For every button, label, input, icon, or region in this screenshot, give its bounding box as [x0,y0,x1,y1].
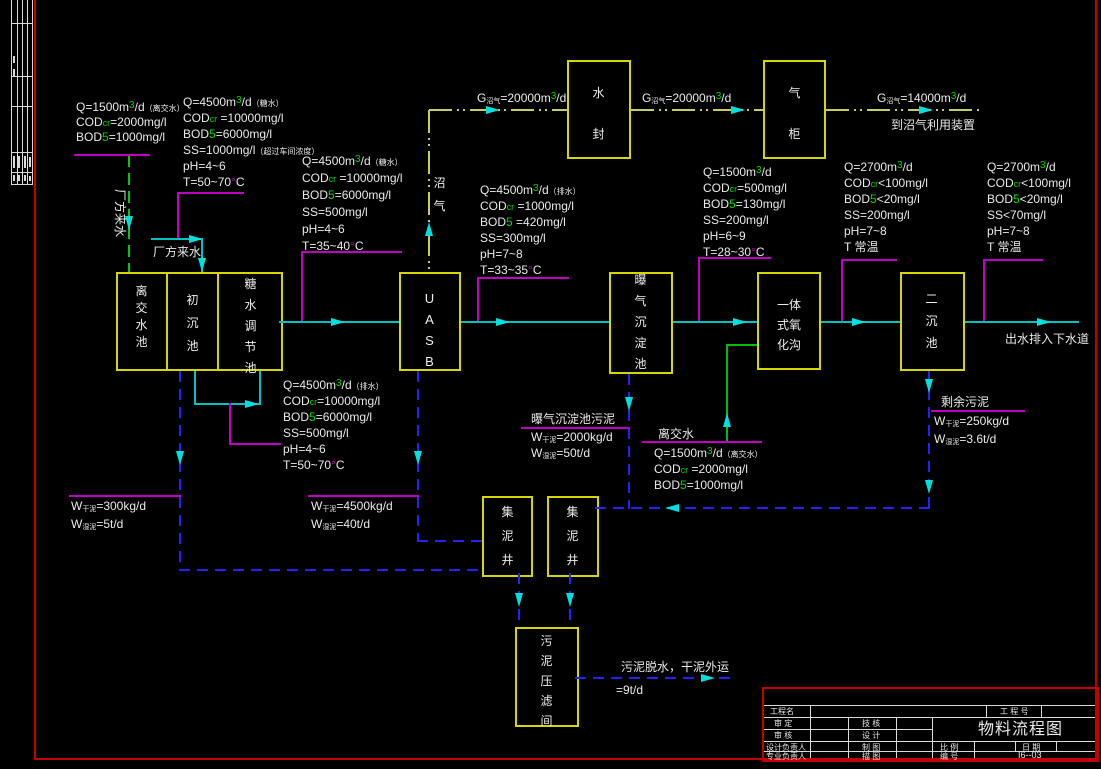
note W4500 sludge [311,497,393,533]
frame bottom red border [34,758,1097,760]
tank 一体式氧化沟 [757,272,821,370]
note 离交水 return data [658,426,694,442]
reactor UASB [399,272,461,371]
building 污泥压滤间 [515,627,579,727]
leader block2 [177,192,244,194]
label 厂方来水 vertical [112,189,128,239]
note block6 氧化沟 outlet data [844,159,928,255]
label G=20000 no.1 [477,90,566,106]
wire biogas 气柜 to utilization [826,109,980,111]
wire main flow 曝气沉淀池 to 氧化沟 [673,321,757,323]
vessel 气柜 [763,60,826,159]
divider 1 [166,272,168,371]
note block3 调节池 outlet data [302,153,403,255]
sludge 曝气沉淀池 down dashed [628,374,630,509]
label 一体式氧化沟 [776,295,802,355]
wire inlet2 cyan horizontal [151,238,203,240]
leader block8 [229,403,231,445]
sludge return run to 集泥井2 [595,507,930,509]
well 集泥井 no.1 [482,496,533,577]
title block red outline [762,687,1099,762]
sludge 初沉池 down dashed [179,371,181,571]
title block labels [770,707,794,717]
drawing number I6--03 [1018,752,1042,759]
label 水封 [592,73,605,155]
leader block3 [301,251,402,253]
leader block6 [841,259,897,261]
wire main flow 氧化沟 to 二沉池 [821,321,900,323]
label 集泥井 2 [566,500,579,572]
note 污泥脱水，干泥外运 [621,659,729,675]
label 初沉池 [186,289,199,358]
note 曝气沉淀池污泥 [531,411,615,427]
label 污泥压滤间 [540,631,553,731]
label 二沉池 [925,288,938,354]
leader W4500 [308,495,419,497]
label 到沼气利用装置 [891,117,975,133]
vessel 水封 [567,60,631,159]
note =9t/d [616,682,643,698]
sludge UASB down dashed [417,371,419,542]
wire inlet2 magenta drop [177,192,179,239]
note 剩余污泥 [941,394,989,410]
wire outfall 二沉池 to sewer [965,321,1079,323]
frame right red border [1095,0,1097,760]
leader block1 [74,154,150,156]
leader 剩余污泥 [931,410,1025,412]
tank 曝气沉淀池 [609,272,673,374]
note 出水排入下水道 [1005,331,1089,347]
label G=20000 no.2 [642,90,731,106]
signature strip tiny text marks [13,56,15,63]
note block5 曝气沉淀池 outlet data [703,164,787,260]
sludge 集泥井1 to 压滤间 [518,573,520,627]
sludge bottom run to 集泥井1 [179,569,482,571]
leader block7 [983,259,1043,261]
leader W300 [69,495,181,497]
wire 离交水 return green [726,344,728,442]
leader 曝气沉淀池污泥 [521,427,630,429]
wire inlet2 cyan drop into 初沉池 [201,238,203,272]
signature strip table (rotated, left margin) [11,0,12,185]
label G=14000 [877,90,966,106]
leader block5 [698,257,771,259]
wire biogas 水封 to 气柜 [631,109,763,111]
wire inlet 离交水 green dashed [128,155,130,272]
wire main flow UASB to 曝气沉淀池 [461,321,609,323]
sludge UASB run to 集泥井1 [417,540,482,542]
wire biogas riser from UASB [428,110,430,272]
sludge cake out of 压滤间 [575,677,735,679]
label 曝气沉淀池 [634,270,647,375]
label 气柜 [788,73,801,155]
note block1 离交水 inlet data [76,100,185,145]
note block2 厂方来水 data [183,94,319,190]
label 集泥井 1 [501,500,514,572]
label 厂方来水 horizontal [153,244,201,260]
note block4 UASB outlet data [480,182,581,278]
tank combined box 离交水池/初沉池/糖水调节池 [116,272,283,371]
label 糖水调节池 [244,274,257,379]
label 离交水池 [135,283,148,351]
note block7 final effluent data [987,159,1071,255]
frame left red border [34,0,36,760]
wire biogas to 水封 [429,109,567,111]
label 沼气 vertical [433,172,446,218]
drawing title 物料流程图 [978,721,1063,739]
leader block4 UASB outlet [477,277,569,279]
wire 初沉池 to 调节池 cyan u-shape [194,371,196,405]
divider 2 [217,272,219,371]
wire main flow combined box to UASB [279,321,399,323]
tank 二沉池 [900,272,965,371]
note block8 初沉池 outlet data [283,377,384,473]
label UASB [422,288,437,372]
well 集泥井 no.2 [547,496,599,577]
sludge 二沉池 down dashed [928,371,930,509]
note W300 sludge [71,497,146,533]
leader 离交水 [642,441,762,443]
title block white grid [764,705,1095,706]
sludge 集泥井2 to 压滤间 [569,573,571,627]
